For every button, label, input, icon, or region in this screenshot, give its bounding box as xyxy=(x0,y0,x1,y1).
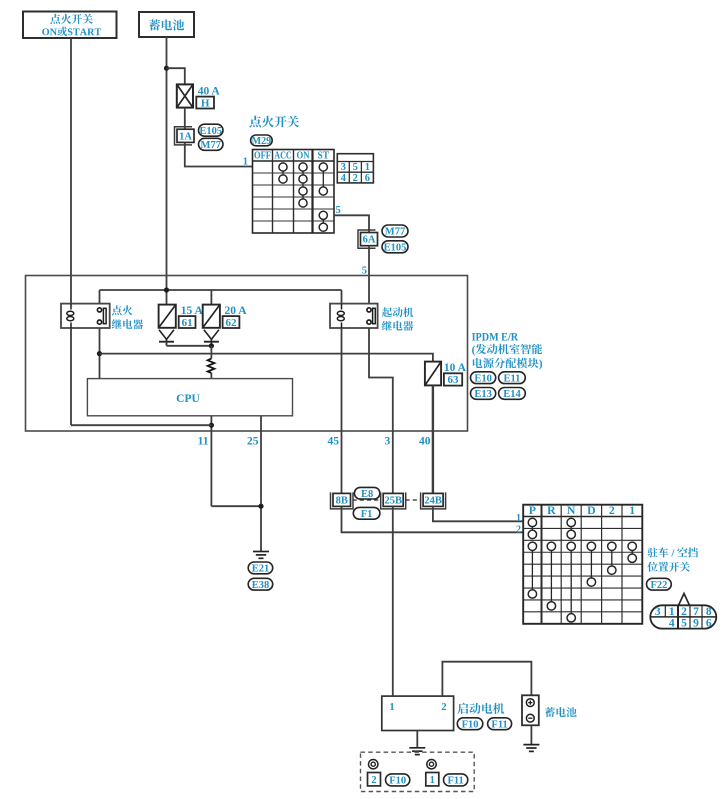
svg-text:2: 2 xyxy=(516,524,521,535)
svg-text:2: 2 xyxy=(441,702,446,713)
svg-text:1: 1 xyxy=(389,702,394,713)
svg-text:IPDM E/R: IPDM E/R xyxy=(472,329,519,343)
svg-text:E13: E13 xyxy=(474,389,492,400)
svg-text:8B: 8B xyxy=(336,495,348,506)
svg-text:11: 11 xyxy=(198,436,209,448)
svg-text:63: 63 xyxy=(448,374,460,386)
svg-text:1: 1 xyxy=(629,503,635,517)
svg-text:1A: 1A xyxy=(179,131,192,142)
svg-text:1: 1 xyxy=(669,606,675,618)
svg-text:F22: F22 xyxy=(650,580,667,591)
svg-text:61: 61 xyxy=(182,317,193,329)
svg-text:25B: 25B xyxy=(384,495,402,506)
svg-text:ON: ON xyxy=(297,151,310,162)
svg-text:E21: E21 xyxy=(252,563,270,574)
svg-text:1: 1 xyxy=(365,162,370,173)
svg-text:10 A: 10 A xyxy=(444,362,467,374)
svg-text:15 A: 15 A xyxy=(181,305,204,317)
svg-text:62: 62 xyxy=(226,317,238,329)
svg-text:H: H xyxy=(201,97,210,109)
svg-text:E105: E105 xyxy=(384,242,407,253)
svg-text:1: 1 xyxy=(430,775,435,786)
svg-text:9: 9 xyxy=(693,618,699,630)
svg-text:F1: F1 xyxy=(361,509,373,520)
svg-text:4: 4 xyxy=(341,173,347,184)
svg-text:E38: E38 xyxy=(252,580,270,591)
svg-text:3: 3 xyxy=(655,606,661,618)
svg-text:2: 2 xyxy=(353,173,358,184)
svg-text:4: 4 xyxy=(669,618,675,630)
svg-text:F11: F11 xyxy=(447,775,463,786)
svg-text:M29: M29 xyxy=(252,136,271,147)
svg-text:3: 3 xyxy=(341,162,346,173)
svg-text:5: 5 xyxy=(681,618,687,630)
svg-text:E14: E14 xyxy=(503,389,521,400)
svg-text:7: 7 xyxy=(693,606,699,618)
svg-text:P: P xyxy=(529,503,536,517)
svg-text:8: 8 xyxy=(706,606,712,618)
svg-text:M77: M77 xyxy=(201,140,221,151)
svg-text:24B: 24B xyxy=(424,495,442,506)
svg-text:E11: E11 xyxy=(503,373,520,384)
svg-text:CPU: CPU xyxy=(176,393,200,405)
svg-text:M77: M77 xyxy=(385,227,405,238)
svg-text:N: N xyxy=(567,503,576,517)
svg-text:R: R xyxy=(547,503,556,517)
svg-text:6A: 6A xyxy=(363,235,376,246)
svg-text:20 A: 20 A xyxy=(225,305,248,317)
svg-text:OFF: OFF xyxy=(254,151,271,162)
svg-text:40: 40 xyxy=(419,436,431,448)
svg-text:F10: F10 xyxy=(389,775,406,786)
svg-text:1: 1 xyxy=(243,157,248,168)
svg-text:ST: ST xyxy=(318,151,330,162)
svg-text:E105: E105 xyxy=(199,126,222,137)
svg-text:1: 1 xyxy=(516,513,521,524)
svg-text:E8: E8 xyxy=(361,489,373,500)
svg-text:2: 2 xyxy=(609,503,615,517)
svg-text:5: 5 xyxy=(353,162,358,173)
svg-text:5: 5 xyxy=(336,205,341,216)
svg-text:25: 25 xyxy=(247,436,259,448)
svg-text:F11: F11 xyxy=(491,719,507,730)
svg-text:E10: E10 xyxy=(474,373,492,384)
svg-text:6: 6 xyxy=(706,618,712,630)
svg-text:D: D xyxy=(587,503,596,517)
svg-text:45: 45 xyxy=(328,436,340,448)
svg-text:6: 6 xyxy=(365,173,370,184)
svg-text:F10: F10 xyxy=(462,719,479,730)
svg-text:2: 2 xyxy=(681,606,687,618)
svg-text:2: 2 xyxy=(371,775,376,786)
svg-text:ACC: ACC xyxy=(274,151,292,162)
svg-text:3: 3 xyxy=(385,436,391,448)
